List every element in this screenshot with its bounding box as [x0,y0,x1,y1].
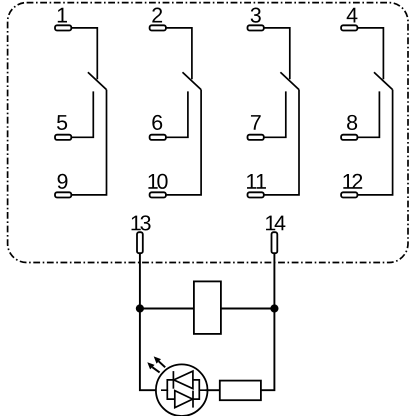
pin 6 label [152,115,162,130]
pin 5 terminal [55,135,71,140]
wire pin 14 to node B [273,253,275,308]
switch blade pole 2 [183,72,202,89]
pole 2 contact group [148,8,201,198]
wire pin 3 to switch [264,28,290,79]
pin 3 label [251,8,261,23]
pin 14 label [266,216,285,231]
node B junction [270,304,278,312]
pin 4 label [347,8,358,23]
pin 10 terminal [150,192,166,197]
wire common pole 1 to pin 9 [71,90,106,195]
pin 1 terminal [55,25,71,30]
pin 11 terminal [248,192,264,197]
switch blade pole 1 [88,72,107,89]
wire node A to coil [140,308,194,310]
switch blade pole 4 [374,72,393,89]
wire pin 6 normally-open contact [166,91,188,137]
wire pin 5 normally-open contact [71,91,93,137]
wire pin 8 normally-open contact [357,91,379,137]
pin 8 label [347,115,357,130]
pin 13 terminal [137,232,143,253]
resistor R1 [220,381,261,401]
light emission arrow 2 [154,356,166,367]
wire pin 1 to switch [71,28,97,79]
pin 7 terminal [248,135,264,140]
wire common pole 3 to pin 11 [264,90,299,195]
pin 14 terminal [272,232,278,253]
pin 13 label [132,215,151,230]
pin 2 label [152,8,162,23]
wire LED to resistor [206,389,220,391]
wire pin 13 to node A [139,253,141,308]
pin 9 terminal [55,192,71,197]
relay body outline (dash-dot border) [8,3,408,263]
pin 9 label [58,174,68,189]
pin 6 terminal [150,135,166,140]
LED diode D1 (points left) [173,371,193,389]
wire pin 4 to switch [357,28,383,79]
wire common pole 4 to pin 12 [357,90,392,195]
switch blade pole 3 [280,72,299,89]
wire node A down to LED [140,309,167,391]
pin 5 label [57,115,67,130]
wire pin 2 to switch [166,28,192,79]
node A junction [136,304,144,312]
pin 7 label [251,115,261,130]
pole 1 contact group [55,8,107,198]
pin 12 label [343,174,362,189]
LED indicator circle [156,364,208,416]
wire common pole 2 to pin 10 [166,90,201,195]
pole 4 contact group [341,8,393,198]
pin 10 label [148,174,167,189]
pin 11 label [247,174,266,189]
wire pin 7 normally-open contact [264,91,286,137]
relay coil [194,281,221,334]
pole 3 contact group [247,8,299,198]
pin 3 terminal [248,25,264,30]
LED inner wiring loop [161,380,206,399]
pin 2 terminal [150,25,166,30]
wire resistor to node B [261,309,275,391]
LED diode D2 (points right) [175,391,193,408]
pin 4 terminal [341,25,357,30]
pin 8 terminal [341,135,357,140]
wire coil to node B [221,308,275,310]
light emission arrow 1 [147,362,159,372]
pin 1 label [58,8,67,23]
pin 12 terminal [341,192,357,197]
